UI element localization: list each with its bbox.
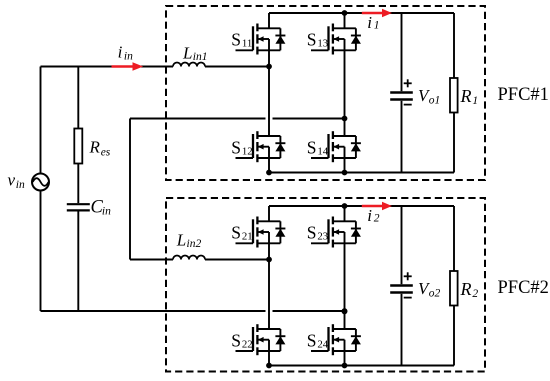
svg-text:in: in <box>16 179 25 191</box>
svg-text:L: L <box>182 43 192 62</box>
svg-text:R: R <box>460 86 472 106</box>
svg-text:R: R <box>89 137 101 156</box>
svg-text:12: 12 <box>242 145 253 157</box>
svg-text:PFC#1: PFC#1 <box>498 85 549 105</box>
svg-text:S: S <box>307 137 317 157</box>
svg-text:21: 21 <box>242 231 253 243</box>
svg-text:2: 2 <box>472 288 478 300</box>
svg-text:o2: o2 <box>429 288 441 300</box>
svg-text:S: S <box>231 137 241 157</box>
svg-text:in: in <box>124 51 133 63</box>
svg-text:S: S <box>307 30 317 50</box>
svg-text:in1: in1 <box>193 51 208 63</box>
svg-text:S: S <box>307 223 317 243</box>
svg-text:es: es <box>101 147 111 159</box>
svg-text:v: v <box>8 171 16 190</box>
svg-text:1: 1 <box>472 95 478 107</box>
svg-text:in: in <box>102 206 111 218</box>
svg-text:i: i <box>367 13 372 32</box>
svg-text:L: L <box>176 230 186 249</box>
svg-text:1: 1 <box>374 20 380 32</box>
svg-text:11: 11 <box>242 38 252 50</box>
svg-text:i: i <box>367 206 372 225</box>
svg-text:S: S <box>231 330 241 350</box>
svg-text:S: S <box>231 30 241 50</box>
svg-text:in2: in2 <box>187 238 202 250</box>
svg-text:PFC#2: PFC#2 <box>498 278 549 298</box>
svg-text:13: 13 <box>317 38 328 50</box>
svg-text:i: i <box>118 42 123 61</box>
svg-text:24: 24 <box>317 338 328 350</box>
svg-text:23: 23 <box>317 231 328 243</box>
svg-text:22: 22 <box>242 338 253 350</box>
svg-text:2: 2 <box>374 213 380 225</box>
svg-text:R: R <box>460 279 472 299</box>
svg-text:o1: o1 <box>429 95 441 107</box>
svg-text:S: S <box>231 223 241 243</box>
svg-text:14: 14 <box>317 145 328 157</box>
svg-text:S: S <box>307 330 317 350</box>
